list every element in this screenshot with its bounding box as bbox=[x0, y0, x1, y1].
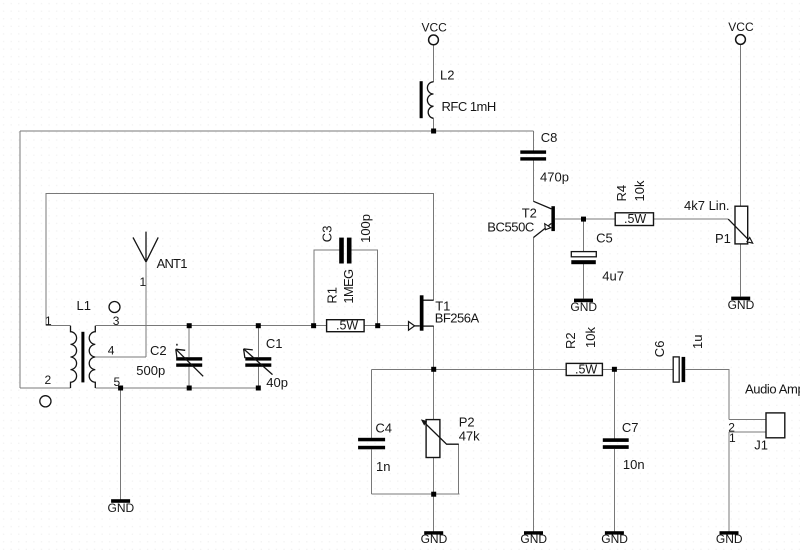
wire C6 right to J1 drop bbox=[685, 369, 729, 419]
svg-text:10n: 10n bbox=[623, 457, 645, 472]
svg-text:ANT1: ANT1 bbox=[157, 256, 188, 271]
transformer L1 left winding bbox=[71, 326, 77, 388]
wire bottom tank line y=388 bbox=[95, 387, 258, 389]
svg-text:L2: L2 bbox=[440, 68, 454, 83]
capacitor C8 bbox=[520, 150, 546, 160]
svg-text:BC550C: BC550C bbox=[487, 220, 534, 235]
wire C8 to T2 collector bbox=[533, 161, 535, 202]
transistor T2 bbox=[534, 201, 555, 237]
node junction R1 right bbox=[375, 323, 380, 328]
node junction T1 source bbox=[431, 367, 436, 372]
variable capacitor C2 bbox=[176, 344, 203, 377]
svg-text:T2: T2 bbox=[522, 206, 537, 221]
wire T1 source to node bbox=[433, 326, 435, 369]
svg-text:C1: C1 bbox=[266, 336, 283, 351]
wire C5 bottom to GND bbox=[583, 264, 585, 298]
svg-text:P2: P2 bbox=[459, 415, 475, 430]
node junction C1 bottom bbox=[256, 386, 261, 391]
wire GND stub under P2 bbox=[433, 494, 435, 531]
svg-text:40p: 40p bbox=[266, 375, 288, 390]
VCC symbol right bbox=[736, 35, 746, 45]
wire J1 pin1 bbox=[729, 431, 766, 433]
node junction L2 bottom bbox=[431, 129, 436, 134]
svg-text:2: 2 bbox=[45, 373, 52, 387]
svg-text:4u7: 4u7 bbox=[602, 269, 624, 284]
wire VCC right to P1 bbox=[740, 45, 742, 207]
capacitor C6 polarized bbox=[673, 357, 685, 382]
wire bottom node line y=494.2 bbox=[371, 493, 459, 495]
svg-text:GND: GND bbox=[108, 501, 135, 515]
connector J1 bbox=[766, 413, 785, 438]
node junction C2 top bbox=[187, 323, 192, 328]
svg-text:R2: R2 bbox=[563, 332, 578, 349]
capacitor C4 bbox=[358, 438, 385, 450]
resistor R1 bbox=[327, 318, 365, 332]
svg-text:C2: C2 bbox=[150, 343, 167, 358]
svg-text:GND: GND bbox=[728, 298, 755, 312]
wire antenna drop bbox=[145, 262, 147, 357]
wire J1 pin1 to GND bbox=[728, 432, 730, 531]
trimmer P2 bbox=[421, 419, 459, 457]
antenna ANT1 bbox=[133, 232, 158, 262]
wire node line y=369.3 bbox=[371, 368, 673, 370]
wire C3 right branch bbox=[352, 250, 378, 326]
JFET T1 bbox=[409, 295, 434, 330]
wire C3 left branch bbox=[314, 250, 339, 326]
svg-text:.5W: .5W bbox=[575, 362, 597, 376]
svg-text:10k: 10k bbox=[632, 180, 647, 201]
wire GND stub under L1 pin5 bbox=[120, 388, 122, 499]
svg-text:1: 1 bbox=[729, 431, 736, 445]
svg-text:C4: C4 bbox=[375, 421, 392, 436]
transformer L1 right winding bbox=[89, 326, 95, 388]
L1 pin 2 open circle bbox=[40, 396, 51, 407]
node junction P2 bottom bbox=[431, 492, 436, 497]
wire L1 pin1 horizontal bbox=[46, 325, 71, 327]
resistor R4 bbox=[615, 212, 653, 226]
ground under L1 pin5 bbox=[108, 499, 135, 515]
capacitor C3 bbox=[339, 238, 351, 264]
wire main signal line y=325.7 bbox=[95, 325, 408, 327]
node junction C2 bottom bbox=[187, 386, 192, 391]
wire node to R4 bbox=[584, 218, 616, 220]
wire P2 top stub bbox=[433, 369, 435, 419]
wire C8 top drop bbox=[533, 131, 535, 151]
resistor R2 bbox=[566, 362, 602, 376]
node junction T2 base bbox=[581, 217, 586, 222]
L1 pin 3 open circle bbox=[109, 302, 120, 313]
transformer L1 core bbox=[81, 332, 84, 383]
svg-text:.5W: .5W bbox=[336, 318, 358, 332]
wire L1 pin4 to antenna bbox=[95, 356, 146, 358]
svg-text:1: 1 bbox=[140, 275, 147, 289]
ground under J1 bbox=[716, 531, 743, 546]
svg-text:P1: P1 bbox=[715, 231, 731, 246]
ground under P2 bbox=[421, 531, 448, 546]
svg-text:1MEG: 1MEG bbox=[341, 269, 356, 304]
wire P1 bottom to GND bbox=[740, 244, 742, 297]
ground under C7 bbox=[601, 531, 628, 546]
svg-text:C8: C8 bbox=[541, 130, 558, 145]
svg-text:C7: C7 bbox=[622, 420, 639, 435]
svg-text:.5W: .5W bbox=[624, 212, 646, 226]
inductor L2 bbox=[420, 81, 434, 118]
svg-text:C3: C3 bbox=[320, 226, 335, 243]
svg-text:1n: 1n bbox=[376, 459, 390, 474]
svg-text:3: 3 bbox=[113, 314, 120, 328]
variable capacitor C1 bbox=[244, 349, 273, 375]
svg-text:R4: R4 bbox=[614, 185, 629, 202]
wire C7 bottom to GND bbox=[613, 449, 615, 531]
wire T2 emitter to GND bbox=[533, 238, 535, 532]
capacitor C7 bbox=[603, 438, 629, 449]
svg-text:500p: 500p bbox=[136, 363, 165, 378]
wire C4 bottom stub bbox=[370, 449, 372, 494]
svg-text:1u: 1u bbox=[690, 335, 705, 349]
svg-text:L1: L1 bbox=[77, 298, 91, 313]
svg-text:C5: C5 bbox=[596, 230, 613, 245]
wire inner frame: L1 pin1 to T1 drain bbox=[46, 194, 434, 326]
svg-text:VCC: VCC bbox=[422, 20, 448, 34]
svg-text:GND: GND bbox=[421, 532, 448, 546]
svg-text:4: 4 bbox=[108, 344, 115, 358]
wire L1 pin2 horizontal bbox=[20, 387, 71, 389]
VCC symbol left bbox=[429, 35, 439, 45]
svg-text:GND: GND bbox=[716, 532, 743, 546]
svg-text:100p: 100p bbox=[358, 214, 373, 243]
capacitor C5 polarized bbox=[571, 252, 596, 265]
node junction C1 top bbox=[256, 323, 261, 328]
svg-text:Audio Amp: Audio Amp bbox=[745, 382, 800, 397]
wire left frame vertical bbox=[19, 131, 21, 388]
wire top frame horizontal bbox=[20, 130, 534, 132]
svg-text:R1: R1 bbox=[325, 287, 340, 304]
node junction L1 pin5 bbox=[118, 386, 123, 391]
wire VCC left to L2 bbox=[433, 45, 435, 82]
wire C4 top stub bbox=[370, 369, 372, 438]
svg-text:GND: GND bbox=[520, 532, 547, 546]
svg-text:4k7 Lin.: 4k7 Lin. bbox=[684, 198, 730, 213]
wire C2 stubs bbox=[188, 326, 190, 388]
svg-text:GND: GND bbox=[601, 532, 628, 546]
svg-text:GND: GND bbox=[570, 300, 597, 314]
svg-text:10k: 10k bbox=[583, 327, 598, 348]
svg-text:BF256A: BF256A bbox=[435, 311, 480, 326]
wire P2 bottom stub bbox=[432, 458, 434, 495]
svg-text:RFC 1mH: RFC 1mH bbox=[442, 99, 496, 114]
wire T2 base to node bbox=[555, 218, 584, 220]
node junction R2 right bbox=[612, 367, 617, 372]
wire L2 bottom stub bbox=[433, 118, 435, 131]
wire P2 wiper return vertical bbox=[458, 444, 460, 494]
wire C5 top stub bbox=[583, 219, 585, 252]
svg-text:VCC: VCC bbox=[728, 20, 754, 34]
svg-text:C6: C6 bbox=[652, 341, 667, 358]
wire C7 top stub bbox=[613, 369, 615, 438]
potentiometer P1 bbox=[728, 206, 753, 244]
ground under P1 bbox=[728, 297, 755, 313]
svg-text:1: 1 bbox=[45, 314, 52, 328]
ground under T2 emitter bbox=[520, 531, 547, 546]
wire C1 stubs bbox=[257, 326, 259, 388]
wire R4 to P1 wiper bbox=[654, 218, 729, 220]
svg-text:47k: 47k bbox=[459, 429, 480, 444]
wire J1 pin2 bbox=[729, 419, 766, 421]
svg-text:J1: J1 bbox=[754, 437, 768, 452]
svg-text:470p: 470p bbox=[540, 170, 569, 185]
ground under C5 bbox=[570, 299, 597, 315]
node junction R1 left bbox=[311, 323, 316, 328]
